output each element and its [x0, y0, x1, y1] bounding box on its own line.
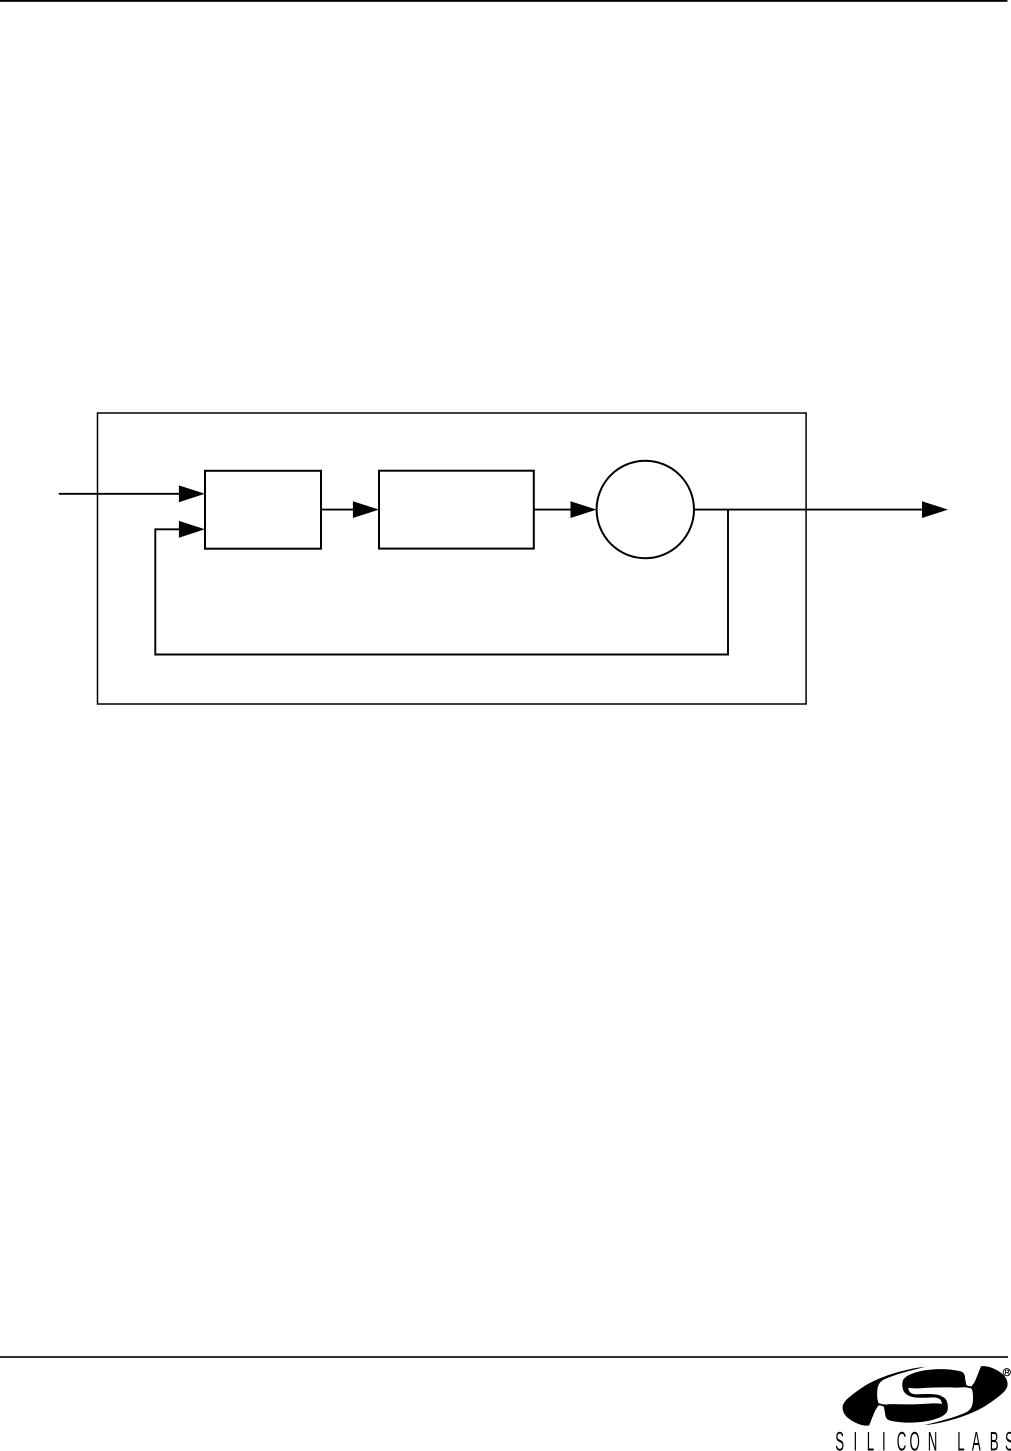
footer rule: [0, 1356, 1008, 1358]
outer enclosure box: [98, 413, 807, 704]
svg-text:C: C: [897, 1428, 907, 1451]
svg-text:I: I: [882, 1428, 886, 1451]
arrowhead into circle: [571, 501, 597, 518]
svg-text:N: N: [928, 1428, 938, 1451]
svg-text:O: O: [910, 1428, 920, 1451]
svg-text:L: L: [867, 1428, 874, 1451]
wire block1 to block2: [321, 509, 355, 511]
SILICON LABS wordmark: [835, 1428, 1011, 1451]
output arrowhead: [922, 501, 948, 518]
wire block2 to circle: [534, 509, 572, 511]
svg-text:S: S: [1005, 1428, 1011, 1451]
svg-text:S: S: [835, 1428, 844, 1451]
svg-text:A: A: [972, 1428, 981, 1451]
svg-text:L: L: [957, 1428, 964, 1451]
top header bar: [0, 0, 1008, 2]
input wire: [59, 493, 180, 495]
registered trademark symbol: [1003, 1369, 1010, 1376]
block 1: [205, 471, 321, 549]
summing node circle: [597, 461, 694, 558]
svg-text:I: I: [853, 1428, 857, 1451]
feedback input arrowhead: [179, 521, 205, 538]
block 2: [379, 471, 534, 549]
arrowhead into block2: [353, 501, 379, 518]
Silicon Labs swoosh logo: [843, 1366, 1008, 1426]
input arrowhead: [179, 485, 205, 502]
svg-text:B: B: [990, 1428, 999, 1451]
output wire: [694, 509, 922, 511]
feedback wire: [155, 510, 728, 655]
